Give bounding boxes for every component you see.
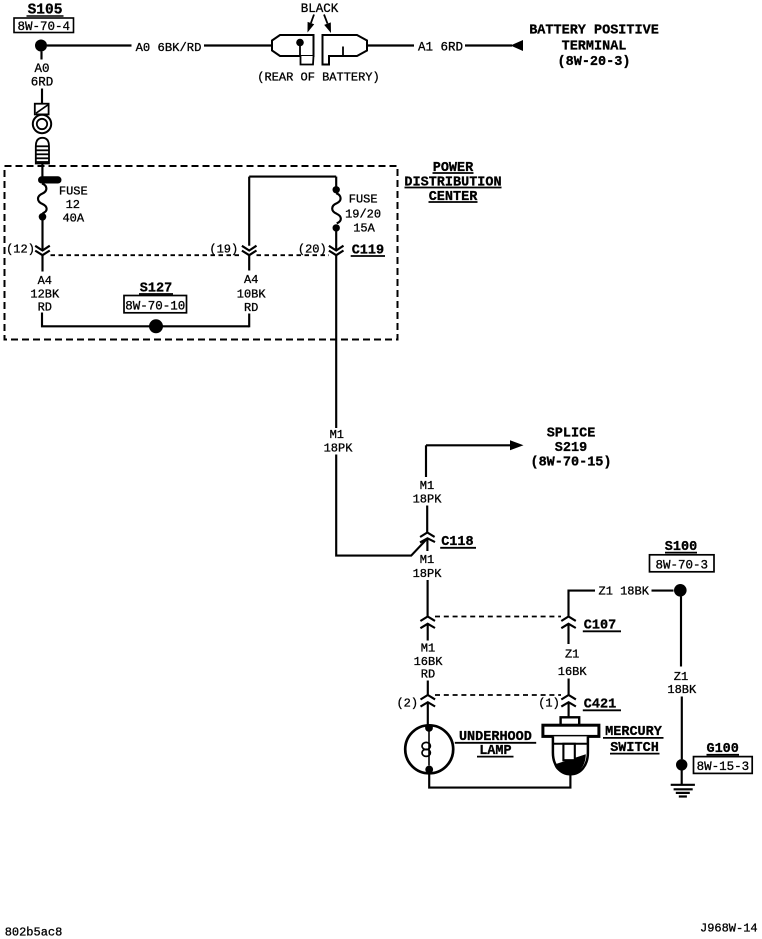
svg-text:(20): (20) <box>298 242 327 256</box>
wire dot to ground symbol <box>681 770 683 785</box>
wire into C118 <box>426 506 428 533</box>
svg-text:M1: M1 <box>421 642 435 656</box>
svg-text:M1: M1 <box>330 428 344 442</box>
wire label A4 10BK RD <box>237 273 267 315</box>
wire A0 6BK/RD right segment <box>204 44 272 46</box>
wire label M1 16BK RD <box>414 642 444 682</box>
underhood lamp bulb <box>405 724 453 773</box>
svg-text:Z1 18BK: Z1 18BK <box>599 584 650 598</box>
arrowhead to battery positive terminal <box>511 40 524 51</box>
svg-text:18BK: 18BK <box>667 683 697 697</box>
svg-text:8W-15-3: 8W-15-3 <box>697 760 750 774</box>
splice S100 label <box>665 540 697 555</box>
svg-text:(12): (12) <box>6 243 35 257</box>
wire label Z1 18BK (right) <box>667 670 697 697</box>
wire battery connector to A1 label <box>367 44 414 46</box>
wire fuse 19/20 to connector (20) <box>335 232 337 251</box>
svg-text:(8W-70-15): (8W-70-15) <box>530 456 611 471</box>
battery connector right half <box>323 35 368 65</box>
svg-text:M1: M1 <box>420 553 434 567</box>
wire down to splice bus <box>42 313 249 327</box>
svg-text:6RD: 6RD <box>31 76 54 90</box>
svg-text:(19): (19) <box>209 242 238 256</box>
S100 reference box 8W-70-3 <box>650 555 715 573</box>
wire below connector (19) <box>248 255 250 270</box>
connector C107 right chevrons <box>561 617 576 629</box>
svg-text:A0: A0 <box>34 62 49 76</box>
svg-text:M1: M1 <box>420 479 434 493</box>
battery connector left half <box>272 35 314 65</box>
dashed connector line C421 <box>435 694 561 696</box>
wire label M1 18PK (upper) <box>324 428 354 456</box>
svg-text:10BK: 10BK <box>237 288 267 302</box>
wire from splice arrow corner down to C118 <box>425 445 427 477</box>
label C118 <box>440 535 476 550</box>
label POWER DISTRIBUTION CENTER <box>404 161 501 205</box>
wire M1 down and over to C118 <box>336 455 427 556</box>
label FUSE 19/20 15A <box>345 193 381 236</box>
wire column (19) up to top bus <box>248 177 250 246</box>
svg-text:18PK: 18PK <box>413 567 443 581</box>
svg-text:15A: 15A <box>353 221 375 235</box>
svg-text:(REAR OF BATTERY): (REAR OF BATTERY) <box>257 71 379 85</box>
svg-text:8W-70-4: 8W-70-4 <box>18 20 71 34</box>
svg-text:40A: 40A <box>62 211 84 225</box>
label C107 <box>583 619 621 634</box>
power distribution center dashed box <box>5 166 398 340</box>
label C421 <box>583 698 621 713</box>
wire (19) down to splice bus <box>248 314 250 328</box>
ring terminal (eyelet) <box>33 104 51 134</box>
wire label M1 18PK (above C118) <box>413 479 443 507</box>
label BATTERY POSITIVE TERMINAL (8W-20-3) <box>529 24 659 71</box>
wire label A0 6RD <box>31 62 54 90</box>
label C119 <box>351 243 385 258</box>
svg-text:802b5ac8: 802b5ac8 <box>5 926 63 939</box>
svg-text:BLACK: BLACK <box>301 2 339 16</box>
wire below C118 <box>426 538 428 551</box>
S105 reference box 8W-70-4 <box>14 18 74 34</box>
svg-text:FUSE: FUSE <box>59 185 88 199</box>
wire A1 6RD segment <box>465 44 512 46</box>
svg-text:8W-70-10: 8W-70-10 <box>125 299 185 313</box>
svg-text:A0 6BK/RD: A0 6BK/RD <box>136 41 202 55</box>
wire A0 6RD stub below S105 <box>40 52 42 60</box>
svg-text:8W-70-3: 8W-70-3 <box>656 558 709 572</box>
connector C421 left chevrons (2) <box>421 695 436 707</box>
svg-text:(8W-20-3): (8W-20-3) <box>558 55 631 70</box>
connector C107 left chevrons <box>420 617 435 629</box>
svg-text:TERMINAL: TERMINAL <box>562 40 627 55</box>
ground G100 dot <box>676 759 687 770</box>
svg-text:J968W-14: J968W-14 <box>700 922 758 936</box>
wire to splice S100 <box>652 590 674 592</box>
wire label A4 12BK RD <box>30 274 60 315</box>
label G100 <box>706 742 739 757</box>
B+ stud (bolt) <box>36 138 49 164</box>
connector C421 right chevrons (1) <box>561 695 576 707</box>
wire down to C421 left <box>427 681 429 696</box>
label MERCURY SWITCH <box>603 725 664 756</box>
connector C118 chevrons <box>420 533 435 543</box>
svg-text:18PK: 18PK <box>413 493 443 507</box>
svg-text:S219: S219 <box>555 441 587 456</box>
splice S100 dot <box>674 584 687 597</box>
dashed connector line (12) to (19) <box>51 254 243 256</box>
wire Z1 18BK from S100 down <box>680 597 682 667</box>
svg-text:RD: RD <box>421 668 435 682</box>
S127 reference box 8W-70-10 <box>124 296 187 314</box>
wire bus to fuse 19/20 <box>335 177 337 187</box>
connector (20) chevrons C119 <box>329 246 344 256</box>
dashed connector line C107 <box>435 616 561 618</box>
G100 reference box 8W-15-3 <box>694 757 753 774</box>
svg-text:SPLICE: SPLICE <box>547 427 596 442</box>
wire down to C107 <box>427 580 429 617</box>
svg-text:(1): (1) <box>538 697 560 711</box>
label FUSE 12 40A <box>59 185 88 226</box>
svg-text:(2): (2) <box>396 697 418 711</box>
svg-text:A1 6RD: A1 6RD <box>418 41 463 55</box>
wire down to ground G100 <box>681 697 683 760</box>
wire A0 6BK/RD left segment <box>47 44 132 46</box>
wire label Z1 16BK <box>558 648 588 680</box>
svg-text:12BK: 12BK <box>30 288 60 302</box>
ground symbol <box>671 785 695 797</box>
fuse 12 bus bar <box>38 176 62 183</box>
mercury switch body <box>543 717 599 774</box>
svg-text:A4: A4 <box>244 273 258 287</box>
wire label M1 18PK (below C118) <box>413 553 443 581</box>
svg-text:19/20: 19/20 <box>345 208 381 222</box>
wire from stud into PDC <box>41 164 43 178</box>
label SPLICE S219 (8W-70-15) <box>530 427 611 471</box>
splice S219 arrowhead <box>510 440 524 450</box>
wire to ring terminal <box>41 89 43 104</box>
wire down to C421 right <box>568 679 570 696</box>
wire lamp bottom to mercury switch <box>429 773 570 787</box>
wire fuse 12 to connector (12) <box>41 221 43 251</box>
svg-text:12: 12 <box>66 198 80 212</box>
splice S127 label <box>139 282 173 297</box>
connector (19) chevrons <box>242 246 257 256</box>
fuse 19/20 element <box>332 193 341 223</box>
dashed connector line (19) to (20) <box>257 254 330 256</box>
wire C421 to lamp <box>427 702 429 725</box>
splice S105 label <box>27 3 64 19</box>
splice S127 dot <box>149 319 163 333</box>
arrow from BLACK to right connector half <box>324 15 331 34</box>
fuse 19/20 lower dot <box>333 224 340 231</box>
svg-text:BATTERY POSITIVE: BATTERY POSITIVE <box>529 24 659 39</box>
connector (12) chevrons <box>35 246 50 256</box>
label UNDERHOOD LAMP <box>455 730 536 759</box>
fuse 12 lower dot <box>39 213 47 221</box>
svg-text:FUSE: FUSE <box>349 193 378 207</box>
fuse 12 element <box>38 184 47 214</box>
wire M1 from C119 down <box>335 255 337 428</box>
svg-text:Z1: Z1 <box>674 670 688 684</box>
svg-text:RD: RD <box>38 301 52 315</box>
svg-text:A4: A4 <box>38 274 52 288</box>
splice S219 arrow line <box>426 444 511 446</box>
wire C421 to mercury switch <box>568 702 570 717</box>
svg-text:RD: RD <box>244 301 258 315</box>
wire below C107 right <box>567 624 569 644</box>
splice S105 dot <box>35 40 47 52</box>
top bus to fuse 19/20 <box>249 176 336 178</box>
wire below C107 left <box>427 624 429 641</box>
fuse 19/20 top dot <box>333 186 340 193</box>
svg-text:16BK: 16BK <box>558 665 588 679</box>
wire Z1 from corner to C107 right <box>569 591 596 617</box>
wire below connector (12) <box>41 255 43 271</box>
svg-text:Z1: Z1 <box>565 648 579 662</box>
svg-text:18PK: 18PK <box>324 441 354 455</box>
arrow from BLACK to left connector half <box>308 15 315 33</box>
